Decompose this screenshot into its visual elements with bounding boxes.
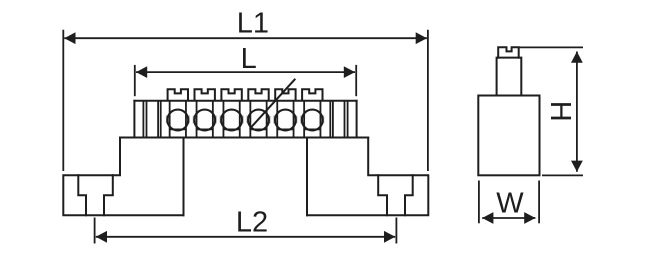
svg-text:H: H	[544, 101, 576, 122]
svg-text:W: W	[496, 188, 524, 220]
svg-text:L1: L1	[237, 7, 269, 39]
svg-text:L2: L2	[236, 206, 268, 238]
svg-text:L: L	[241, 43, 257, 75]
